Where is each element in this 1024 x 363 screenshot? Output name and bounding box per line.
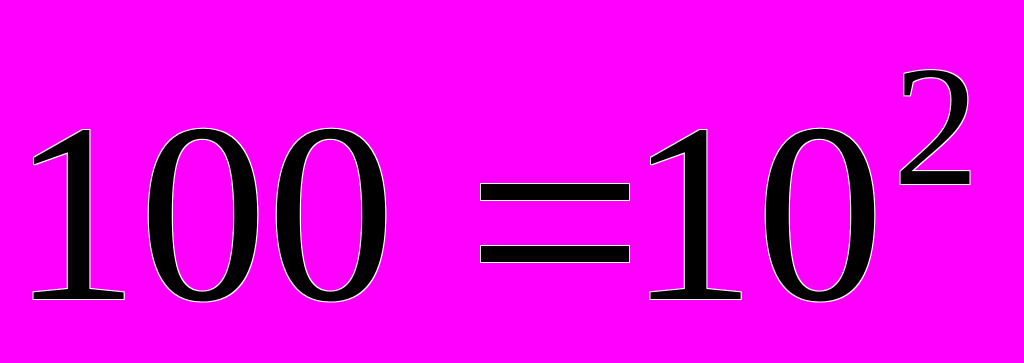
number 100 (left-hand side) [11,213,395,215]
exponent 2 (superscript) [893,126,979,128]
equals sign bottom bar [481,246,629,262]
number 10 (base of right-hand side) [628,213,884,215]
equals sign top bar [481,184,629,200]
